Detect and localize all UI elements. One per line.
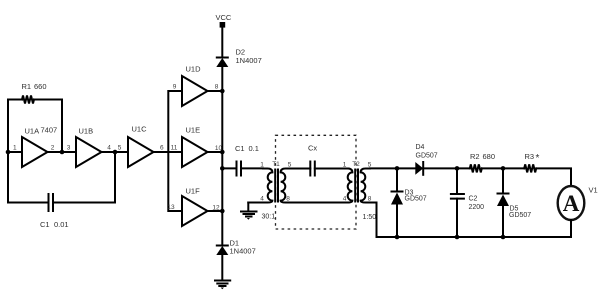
svg-text:8: 8	[215, 84, 219, 91]
svg-text:660: 660	[34, 82, 47, 91]
svg-text:1:50: 1:50	[363, 214, 377, 221]
op-amp U1F	[167, 187, 220, 227]
svg-text:D4: D4	[416, 144, 425, 151]
svg-text:6: 6	[160, 145, 164, 152]
svg-text:VCC: VCC	[216, 13, 232, 22]
wire T2 bottom to rail	[370, 203, 377, 238]
svg-text:2200: 2200	[469, 204, 485, 211]
svg-text:1: 1	[343, 162, 347, 169]
capacitor C2 2200	[451, 168, 484, 237]
wire input bus of buffer bank	[168, 91, 182, 211]
svg-text:30:1: 30:1	[262, 214, 276, 221]
svg-text:1N4007: 1N4007	[230, 247, 256, 256]
svg-text:T1: T1	[272, 161, 280, 168]
svg-text:U1B: U1B	[79, 127, 94, 136]
svg-text:4: 4	[260, 196, 264, 203]
wire R1 top loop	[8, 100, 62, 153]
svg-text:U1F: U1F	[186, 187, 201, 196]
svg-text:7407: 7407	[41, 126, 58, 135]
node C2 bottom	[455, 235, 460, 240]
svg-text:8: 8	[368, 196, 372, 203]
svg-text:4: 4	[343, 196, 347, 203]
wire D4 to R2	[423, 167, 470, 169]
svg-text:0.01: 0.01	[54, 220, 69, 229]
svg-text:0.1: 0.1	[249, 144, 259, 153]
ground under D1	[215, 281, 230, 290]
svg-text:4: 4	[107, 145, 111, 152]
transformer T2 1:50	[343, 161, 377, 221]
diode D4 GD507	[415, 144, 437, 175]
resistor R2 680	[470, 152, 495, 172]
svg-text:U1C: U1C	[132, 125, 148, 134]
diode D3 GD507	[391, 168, 427, 237]
diode D2 1N4007	[216, 48, 261, 92]
node D5 bottom	[501, 235, 506, 240]
diode D1 1N4007	[216, 211, 255, 280]
node U1D out	[220, 89, 225, 94]
resistor R1	[22, 96, 34, 104]
svg-text:GD507: GD507	[405, 196, 427, 203]
svg-text:C1: C1	[40, 220, 50, 229]
svg-text:GD507: GD507	[509, 212, 531, 219]
wire branch to C1 0.1	[222, 167, 236, 169]
node U1B output junction	[113, 150, 118, 155]
svg-text:3: 3	[67, 145, 71, 152]
node U1F out	[220, 209, 225, 214]
node D3 top	[395, 166, 400, 171]
svg-text:680: 680	[483, 152, 496, 161]
svg-text:11: 11	[171, 145, 178, 152]
node U1A output junction	[60, 150, 65, 155]
wire R3 to meter	[537, 168, 571, 186]
meter V1	[558, 186, 598, 238]
svg-text:5: 5	[118, 145, 122, 152]
wire bottom rail	[377, 236, 572, 238]
wire feedback left vertical	[7, 100, 9, 203]
svg-text:C1: C1	[235, 144, 245, 153]
svg-text:A: A	[563, 191, 580, 216]
svg-text:U1E: U1E	[186, 126, 201, 135]
svg-text:8: 8	[286, 196, 290, 203]
svg-text:1: 1	[13, 145, 17, 152]
svg-text:2: 2	[51, 145, 55, 152]
svg-text:U1D: U1D	[186, 65, 202, 74]
op-amp U1A	[13, 126, 71, 168]
svg-text:T2: T2	[352, 161, 360, 168]
capacitor C1 0.01	[8, 152, 115, 229]
node branch out	[220, 166, 225, 171]
op-amp U1B	[76, 127, 122, 168]
svg-text:C2: C2	[469, 196, 478, 203]
wire output bus	[221, 91, 223, 211]
svg-text:13: 13	[167, 204, 175, 211]
dashed measurement box	[276, 135, 357, 229]
op-amp U1D	[173, 65, 219, 107]
wire buffer outputs to bus	[208, 91, 223, 211]
capacitor C1 0.1	[235, 144, 263, 176]
svg-text:*: *	[536, 153, 540, 164]
svg-text:R2: R2	[470, 152, 480, 161]
node C2 top	[455, 166, 460, 171]
capacitor Cx	[308, 144, 349, 176]
wire T1 to T2 bottom	[290, 202, 349, 204]
svg-text:R3: R3	[525, 152, 535, 161]
wire T1 to Cx	[290, 168, 310, 170]
svg-text:1N4007: 1N4007	[236, 56, 262, 65]
svg-text:R1: R1	[22, 82, 32, 91]
op-amp U1E	[171, 126, 223, 168]
wire T2 top to D4	[370, 167, 415, 169]
svg-text:5: 5	[288, 162, 292, 169]
svg-text:1: 1	[260, 162, 264, 169]
op-amp U1C	[128, 125, 164, 168]
node D3 bottom	[395, 235, 400, 240]
power VCC terminal	[216, 13, 232, 58]
svg-text:Cx: Cx	[308, 144, 317, 153]
ground at T1	[241, 203, 257, 220]
wire main row segments	[8, 151, 182, 153]
node input junction	[6, 150, 11, 155]
wire R2 to R3	[483, 167, 524, 169]
node D5 top	[501, 166, 506, 171]
svg-text:9: 9	[173, 84, 177, 91]
transformer T1 30:1	[248, 161, 291, 221]
node U1E out	[220, 150, 225, 155]
svg-text:GD507: GD507	[416, 153, 438, 160]
resistor R3 *	[524, 152, 539, 172]
svg-text:V1: V1	[589, 186, 598, 195]
svg-text:U1A: U1A	[25, 127, 40, 136]
diode D5 GD507	[497, 168, 531, 237]
